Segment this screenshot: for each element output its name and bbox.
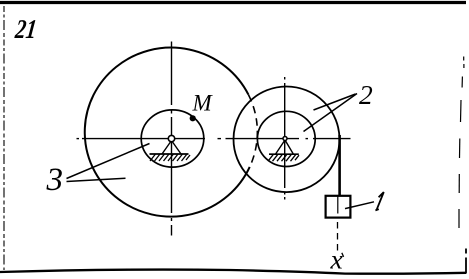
svg-text:M: M [192, 91, 214, 116]
svg-text:x: x [330, 244, 343, 275]
svg-text:21: 21 [13, 14, 38, 44]
svg-text:2: 2 [359, 79, 373, 110]
svg-text:3: 3 [46, 162, 64, 198]
